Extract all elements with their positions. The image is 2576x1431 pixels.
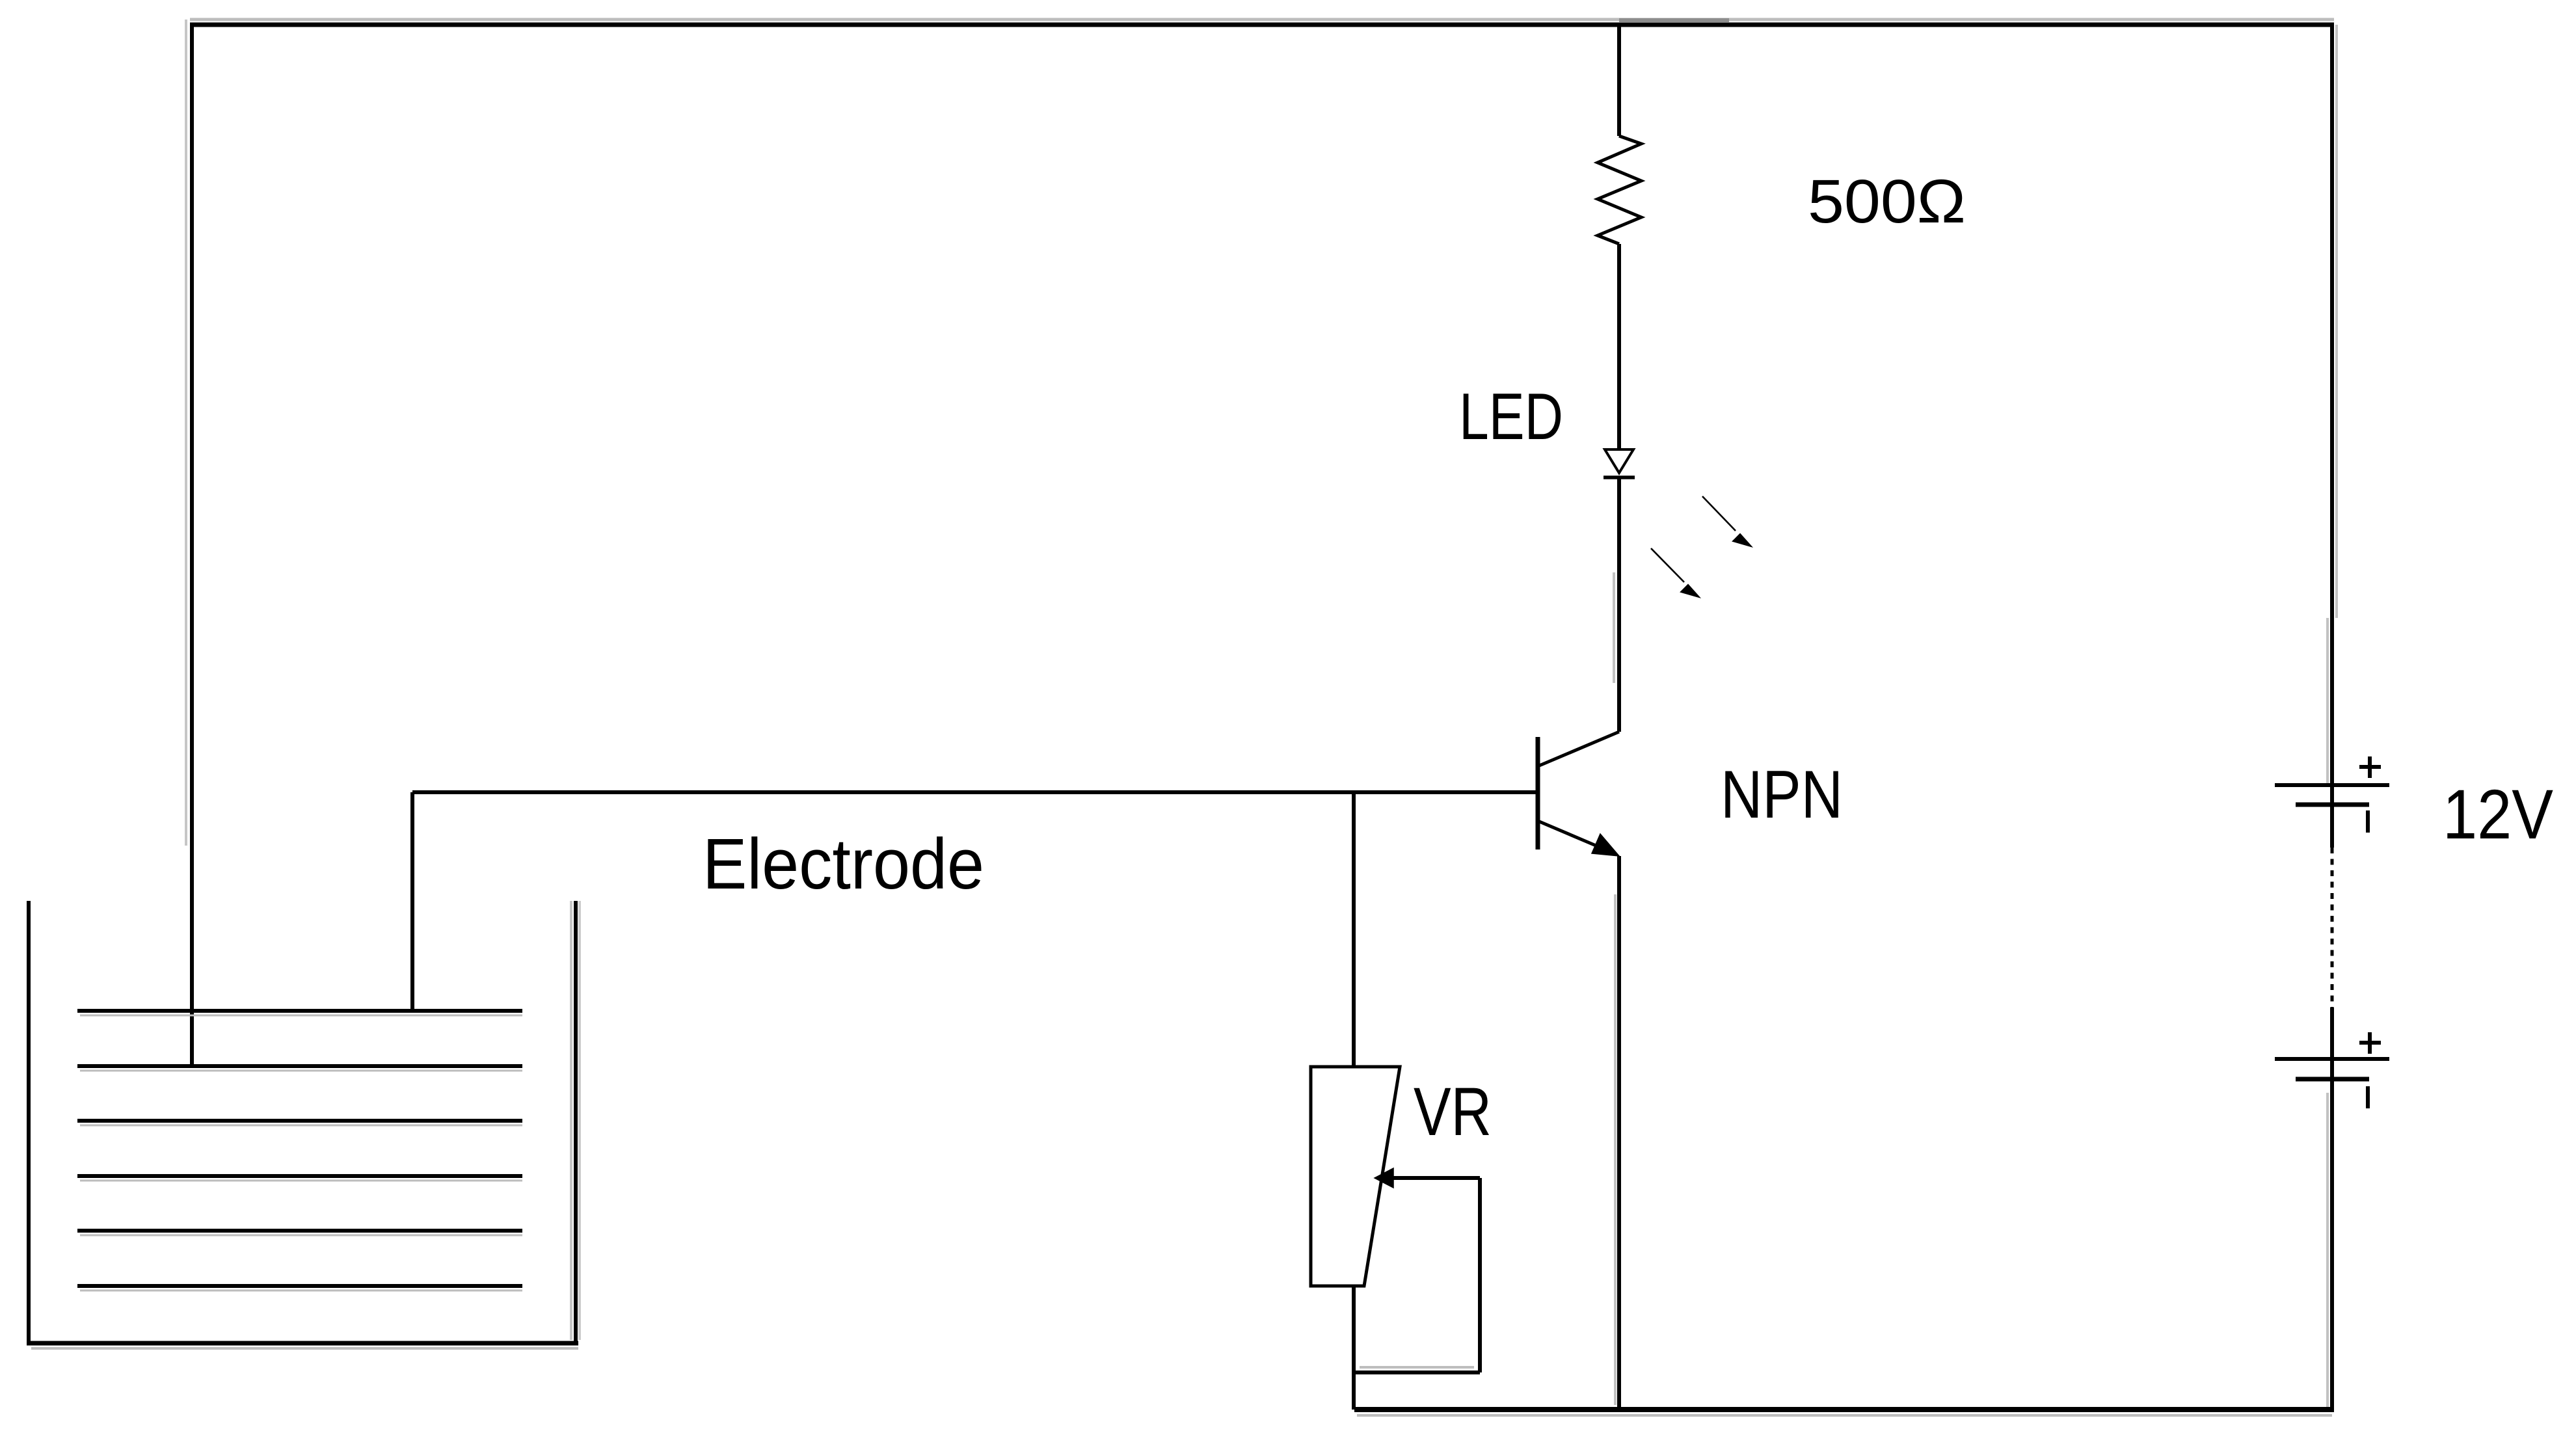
wire LED to collector gray shadow	[1613, 572, 1615, 683]
wire top gray shadow	[190, 18, 2334, 21]
VR wiper loop gray shadow	[1360, 1366, 1474, 1369]
water line 2	[77, 1064, 522, 1068]
wire electrode drop into tank	[410, 792, 414, 1011]
transistor Q1 emitter arrowhead	[1592, 834, 1619, 856]
svg-text:500Ω: 500Ω	[1808, 167, 1966, 236]
battery B1 cell2 plus sign	[2359, 1032, 2381, 1054]
wire base (electrode)	[412, 790, 1538, 794]
VR wiper loop right	[1478, 1178, 1482, 1372]
wire right gray shadow upper	[2335, 25, 2338, 618]
battery B1 cell1 minus mark	[2366, 810, 2370, 833]
battery B1 cell1 long plate	[2275, 783, 2389, 787]
water line 4	[77, 1174, 522, 1178]
wire emitter to bottom	[1617, 856, 1621, 1410]
battery B1 cell2 minus mark	[2366, 1086, 2370, 1108]
tank right wall gray shadows	[570, 901, 572, 1340]
water line 1	[77, 1009, 522, 1013]
wire top	[190, 23, 2334, 27]
transistor Q1 emitter diagonal	[1538, 821, 1599, 847]
LED emission arrow 1	[1702, 496, 1751, 546]
wire resistor top lead	[1617, 25, 1621, 136]
svg-text:LED: LED	[1459, 381, 1563, 453]
tank bottom gray shadow	[31, 1347, 578, 1350]
LED emission arrow 2	[1651, 548, 1699, 597]
wire resistor to LED	[1617, 244, 1621, 451]
svg-text:VR: VR	[1414, 1074, 1492, 1150]
wire bottom	[1354, 1407, 2334, 1412]
water line 6	[77, 1284, 522, 1288]
water line 3	[77, 1119, 522, 1123]
resistor 500 ohm zigzag	[1598, 136, 1641, 244]
transistor Q1 base bar	[1536, 737, 1540, 849]
tank left wall	[27, 901, 31, 1343]
wire left (electrode into tank)	[190, 23, 194, 1066]
svg-text:Electrode: Electrode	[703, 824, 984, 904]
wire right lower (battery to bottom)	[2330, 1008, 2334, 1410]
svg-text:12V: 12V	[2443, 775, 2553, 853]
VR wiper arrowhead	[1375, 1168, 1393, 1188]
potentiometer VR body	[1311, 1067, 1400, 1286]
diode LED triangle	[1605, 449, 1633, 473]
wire top gray overlap segment	[1619, 18, 1729, 22]
battery internal dashed link	[2331, 848, 2334, 1008]
VR wiper arrow line	[1392, 1176, 1480, 1180]
wire right gray shadow lower	[2326, 1093, 2329, 1407]
svg-text:NPN: NPN	[1721, 757, 1843, 833]
wire emitter down gray shadow	[1614, 894, 1617, 1405]
battery B1 cell2 long plate	[2275, 1057, 2389, 1061]
wire bottom gray shadow	[1357, 1414, 2332, 1417]
tank right wall	[574, 901, 578, 1343]
battery B1 cell1 plus sign	[2359, 756, 2381, 778]
battery B1 cell2 short plate	[2296, 1077, 2369, 1082]
wire right upper (to battery)	[2330, 23, 2334, 848]
wire VR to bottom	[1352, 1286, 1356, 1410]
battery B1 cell1 short plate	[2296, 803, 2369, 807]
tank bottom	[27, 1341, 578, 1346]
diode LED cathode bar	[1603, 475, 1635, 479]
water line 5	[77, 1229, 522, 1233]
wire left gray shadow	[185, 20, 187, 846]
wire base to VR	[1352, 792, 1356, 1067]
wire LED to collector	[1617, 477, 1621, 732]
transistor Q1 collector diagonal	[1538, 732, 1619, 766]
VR wiper loop bottom	[1354, 1371, 1480, 1374]
